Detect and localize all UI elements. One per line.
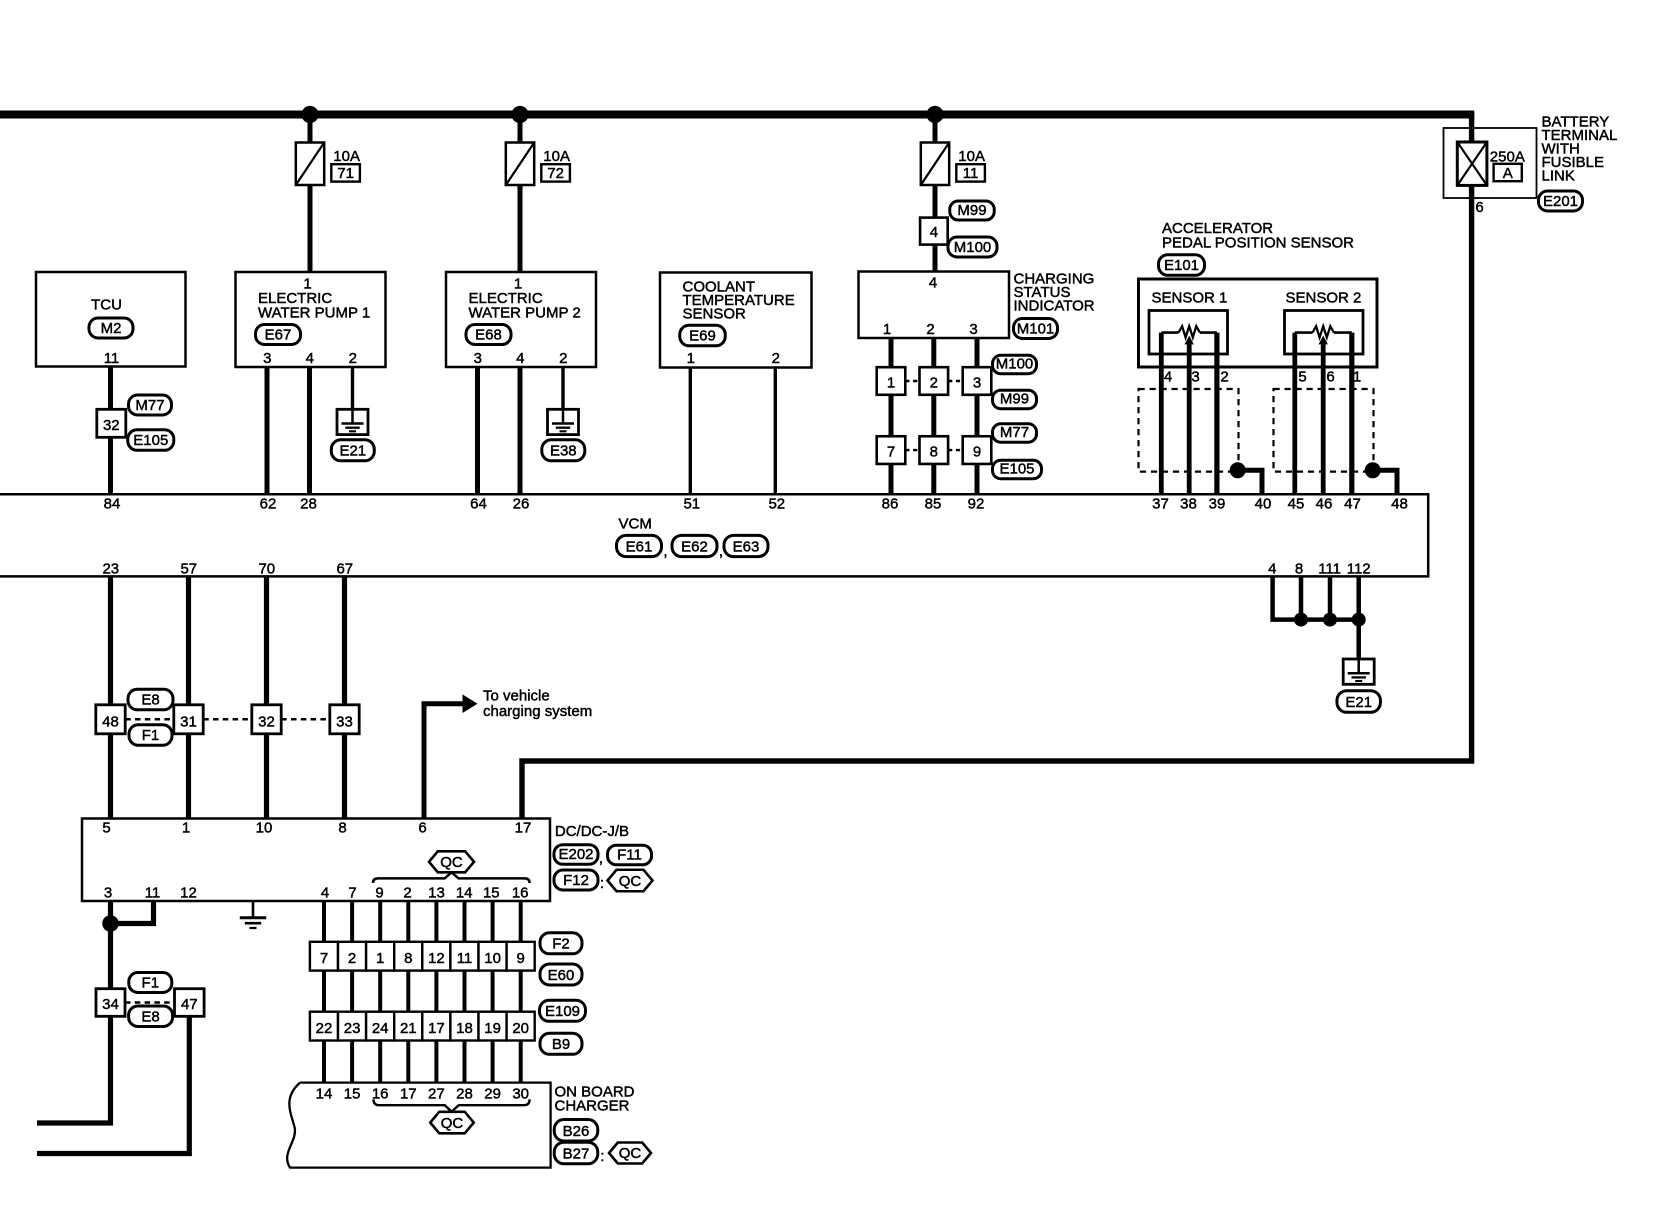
svg-text:DC/DC-J/B: DC/DC-J/B [555, 823, 629, 840]
svg-text:26: 26 [513, 496, 530, 513]
svg-text:28: 28 [300, 496, 317, 513]
svg-text:E60: E60 [548, 967, 575, 984]
svg-text:5: 5 [102, 820, 110, 837]
svg-text:3: 3 [973, 374, 981, 391]
svg-text:70: 70 [258, 561, 275, 578]
svg-text:2: 2 [559, 350, 567, 367]
svg-text:E109: E109 [545, 1003, 580, 1020]
svg-text:F1: F1 [142, 727, 160, 744]
svg-text:10A: 10A [333, 148, 360, 165]
svg-text:7: 7 [320, 950, 328, 967]
svg-text:1: 1 [182, 820, 190, 837]
svg-text:15: 15 [344, 1085, 361, 1102]
svg-text:M77: M77 [1000, 424, 1029, 441]
svg-text:F12: F12 [563, 872, 589, 889]
svg-text:31: 31 [180, 713, 197, 730]
svg-text:2: 2 [930, 374, 938, 391]
svg-text:1: 1 [376, 950, 384, 967]
svg-text::: : [600, 1148, 604, 1165]
svg-text:M101: M101 [1017, 320, 1055, 337]
svg-text:2: 2 [926, 321, 934, 338]
svg-text:B27: B27 [563, 1146, 590, 1163]
svg-text:VCM: VCM [619, 516, 652, 533]
svg-text:52: 52 [768, 496, 785, 513]
svg-text:8: 8 [930, 443, 938, 460]
svg-text:8: 8 [338, 820, 346, 837]
svg-text:1: 1 [887, 374, 895, 391]
svg-text:23: 23 [344, 1020, 361, 1037]
svg-text:8: 8 [404, 950, 412, 967]
svg-text:8: 8 [1295, 561, 1303, 578]
svg-text:57: 57 [180, 561, 197, 578]
svg-text:E61: E61 [626, 538, 653, 555]
svg-text:29: 29 [484, 1085, 501, 1102]
svg-text:5: 5 [1298, 369, 1306, 386]
svg-text:32: 32 [258, 713, 275, 730]
svg-text:23: 23 [102, 561, 119, 578]
svg-text:E105: E105 [133, 432, 168, 449]
svg-text:2: 2 [348, 950, 356, 967]
svg-text:62: 62 [260, 496, 277, 513]
svg-text:48: 48 [102, 713, 119, 730]
svg-text:1: 1 [883, 321, 891, 338]
svg-text:27: 27 [428, 1085, 445, 1102]
svg-text:E101: E101 [1164, 257, 1199, 274]
svg-text:37: 37 [1152, 496, 1169, 513]
svg-text:10: 10 [484, 950, 501, 967]
svg-text:16: 16 [512, 885, 529, 902]
svg-text:33: 33 [336, 713, 353, 730]
svg-text:,: , [599, 850, 603, 867]
svg-text:45: 45 [1288, 496, 1305, 513]
svg-text:46: 46 [1316, 496, 1333, 513]
svg-text:47: 47 [1344, 496, 1361, 513]
svg-text:4: 4 [1164, 369, 1172, 386]
svg-text:QC: QC [441, 1115, 464, 1132]
svg-text:7: 7 [887, 443, 895, 460]
svg-text:15: 15 [483, 885, 500, 902]
svg-text:QC: QC [440, 854, 463, 871]
svg-text:85: 85 [925, 496, 942, 513]
svg-text:E67: E67 [265, 326, 292, 343]
svg-text:3: 3 [969, 321, 977, 338]
svg-text:2: 2 [403, 885, 411, 902]
svg-text:E8: E8 [141, 692, 159, 709]
svg-text:To vehicle: To vehicle [483, 688, 550, 705]
svg-text:4: 4 [516, 350, 524, 367]
svg-text:12: 12 [428, 950, 445, 967]
svg-text:28: 28 [456, 1085, 473, 1102]
svg-text:2: 2 [1220, 369, 1228, 386]
svg-text:QC: QC [619, 873, 642, 890]
svg-text:E105: E105 [999, 461, 1034, 478]
svg-text:17: 17 [400, 1085, 417, 1102]
svg-text:11: 11 [457, 950, 473, 967]
svg-text:A: A [1503, 165, 1513, 182]
svg-text:14: 14 [456, 885, 473, 902]
svg-text:4: 4 [321, 885, 329, 902]
svg-text:QC: QC [619, 1145, 642, 1162]
svg-text:WATER PUMP 2: WATER PUMP 2 [469, 305, 581, 322]
svg-text:20: 20 [512, 1020, 529, 1037]
svg-text:CHARGER: CHARGER [555, 1097, 630, 1114]
svg-text:21: 21 [400, 1020, 417, 1037]
svg-text:12: 12 [180, 885, 197, 902]
svg-text:51: 51 [683, 496, 700, 513]
svg-text:67: 67 [336, 561, 353, 578]
svg-text:2: 2 [349, 350, 357, 367]
svg-text:64: 64 [470, 496, 487, 513]
svg-text:M99: M99 [1000, 391, 1029, 408]
svg-text:PEDAL POSITION SENSOR: PEDAL POSITION SENSOR [1162, 235, 1354, 252]
svg-text:34: 34 [102, 996, 119, 1013]
svg-text:17: 17 [515, 820, 532, 837]
svg-text:4: 4 [1268, 561, 1276, 578]
svg-text:SENSOR 2: SENSOR 2 [1286, 290, 1362, 307]
svg-text:2: 2 [772, 350, 780, 367]
svg-text:11: 11 [145, 885, 161, 902]
svg-text:92: 92 [968, 496, 985, 513]
svg-text:E63: E63 [733, 538, 760, 555]
svg-text:E69: E69 [689, 328, 716, 345]
svg-text:3: 3 [1191, 369, 1199, 386]
svg-text:112: 112 [1347, 561, 1371, 578]
svg-text:1: 1 [1353, 369, 1361, 386]
svg-text:6: 6 [1326, 369, 1334, 386]
svg-text:39: 39 [1209, 496, 1226, 513]
svg-text:9: 9 [517, 950, 525, 967]
svg-text:TCU: TCU [91, 297, 122, 314]
svg-text:charging system: charging system [483, 703, 592, 720]
svg-text:,: , [663, 543, 667, 560]
svg-text:E201: E201 [1543, 193, 1578, 210]
svg-text:71: 71 [337, 165, 354, 182]
svg-text:4: 4 [930, 224, 938, 241]
svg-text:19: 19 [484, 1020, 501, 1037]
svg-text:9: 9 [375, 885, 383, 902]
svg-text:B26: B26 [563, 1123, 590, 1140]
svg-text:14: 14 [316, 1085, 333, 1102]
svg-text:SENSOR: SENSOR [683, 306, 747, 323]
svg-text:F1: F1 [142, 974, 160, 991]
svg-text:6: 6 [1475, 199, 1483, 216]
svg-text:48: 48 [1391, 496, 1408, 513]
svg-text:E21: E21 [1345, 694, 1372, 711]
svg-text:E62: E62 [681, 538, 708, 555]
svg-text:F11: F11 [617, 847, 642, 864]
svg-text:72: 72 [547, 165, 564, 182]
svg-text::: : [600, 875, 604, 892]
svg-text:LINK: LINK [1542, 168, 1575, 185]
svg-text:E38: E38 [550, 443, 577, 460]
svg-text:17: 17 [428, 1020, 445, 1037]
svg-text:13: 13 [428, 885, 445, 902]
svg-text:47: 47 [181, 996, 198, 1013]
svg-text:11: 11 [963, 165, 979, 182]
svg-text:4: 4 [306, 350, 314, 367]
svg-text:84: 84 [104, 496, 121, 513]
svg-text:3: 3 [474, 350, 482, 367]
svg-text:30: 30 [512, 1085, 529, 1102]
svg-text:38: 38 [1180, 496, 1197, 513]
svg-text:10A: 10A [543, 148, 570, 165]
svg-text:WATER PUMP 1: WATER PUMP 1 [258, 305, 370, 322]
svg-text:M77: M77 [135, 397, 164, 414]
svg-text:M100: M100 [996, 356, 1034, 373]
svg-text:SENSOR 1: SENSOR 1 [1152, 290, 1228, 307]
svg-text:111: 111 [1318, 561, 1341, 578]
svg-text:24: 24 [372, 1020, 389, 1037]
svg-text:B9: B9 [552, 1036, 570, 1053]
svg-text:18: 18 [456, 1020, 473, 1037]
svg-text:3: 3 [104, 885, 112, 902]
svg-text:11: 11 [104, 350, 120, 367]
svg-text:E21: E21 [339, 443, 366, 460]
svg-text:3: 3 [263, 350, 271, 367]
svg-text:M2: M2 [101, 320, 122, 337]
svg-text:M100: M100 [954, 239, 992, 256]
svg-text:M99: M99 [957, 202, 986, 219]
svg-text:6: 6 [418, 820, 426, 837]
svg-text:1: 1 [687, 350, 695, 367]
svg-text:,: , [719, 543, 723, 560]
svg-text:32: 32 [103, 417, 120, 434]
svg-text:86: 86 [882, 496, 899, 513]
svg-text:40: 40 [1255, 496, 1272, 513]
svg-text:22: 22 [316, 1020, 333, 1037]
svg-text:10: 10 [256, 820, 273, 837]
svg-text:4: 4 [929, 275, 937, 292]
svg-text:E8: E8 [141, 1008, 159, 1025]
svg-text:INDICATOR: INDICATOR [1014, 298, 1095, 315]
svg-text:E68: E68 [475, 326, 502, 343]
svg-text:F2: F2 [552, 936, 570, 953]
svg-text:10A: 10A [958, 148, 985, 165]
svg-text:E202: E202 [558, 846, 593, 863]
svg-text:7: 7 [348, 885, 356, 902]
svg-text:9: 9 [973, 443, 981, 460]
